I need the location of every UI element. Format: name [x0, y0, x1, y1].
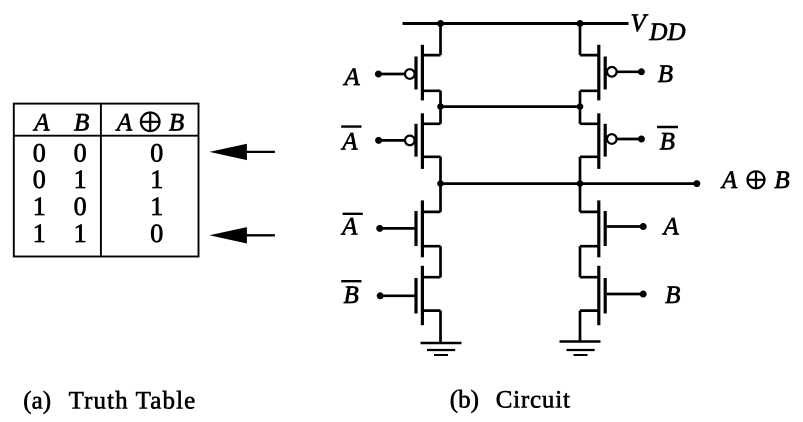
svg-text:1: 1 — [150, 165, 163, 194]
junction dot output left branch — [437, 180, 444, 187]
svg-text:1: 1 — [33, 192, 46, 221]
svg-text:0: 0 — [74, 192, 87, 221]
svg-text:B: B — [774, 167, 789, 194]
node N1: cross-coupling wire between branches — [441, 105, 581, 108]
bubble on Q6 gate — [607, 134, 617, 144]
ground symbol (right branch) — [560, 342, 601, 356]
svg-text:B: B — [74, 110, 89, 137]
table row 2: 0 1 -> 1 — [33, 165, 164, 194]
table header label A xor B — [115, 109, 184, 136]
terminal dot input B (Q8) — [640, 291, 647, 298]
bubble on Q5 gate — [607, 67, 617, 77]
svg-text:B: B — [343, 282, 358, 309]
wire input B to Q8 gate — [607, 293, 643, 296]
label input A — [342, 64, 360, 91]
arrow pointing to table row 1 — [209, 144, 275, 160]
wire Q1 drain to node N1 — [439, 91, 442, 107]
transistor Q2 (PMOS, gate A-bar, left) — [416, 113, 441, 169]
wire output node to Q3 drain — [439, 184, 442, 212]
svg-text:A: A — [32, 110, 50, 137]
label VDD — [631, 10, 686, 46]
label input A-bar (Q3) — [340, 214, 363, 241]
svg-text:A: A — [340, 214, 358, 241]
terminal dot input B-bar (Q6) — [638, 136, 645, 143]
svg-text:A: A — [342, 64, 360, 91]
svg-text:0: 0 — [33, 165, 46, 194]
wire node N1 to Q6 source — [579, 107, 582, 124]
svg-text:B: B — [169, 109, 184, 136]
wire Q2 drain to output node — [439, 157, 442, 184]
terminal dot input A (Q7) — [640, 223, 647, 230]
svg-text:A: A — [720, 167, 738, 194]
bubble on Q1 gate — [405, 69, 415, 79]
svg-text:Circuit: Circuit — [496, 386, 571, 413]
transistor Q6 (PMOS, gate B-bar, right) — [580, 113, 605, 169]
junction dot node N1 right — [577, 103, 584, 110]
svg-text:0: 0 — [150, 139, 163, 168]
table header label B — [74, 110, 89, 137]
svg-text:0: 0 — [74, 139, 87, 168]
wire input B to Q5 gate — [616, 70, 641, 73]
net VDD: power rail wire — [403, 22, 629, 25]
terminal dot output — [693, 180, 700, 187]
wire VDD to Q1 source — [439, 24, 442, 56]
bubble on Q2 gate — [405, 136, 415, 146]
transistor Q7 (NMOS, gate A, right) — [580, 200, 605, 257]
table row 1: 0 0 -> 0 — [33, 139, 164, 168]
wire Q6 drain to output node — [579, 157, 582, 184]
junction dot node N1 left — [437, 103, 444, 110]
label input B (Q5) — [658, 61, 673, 88]
svg-text:1: 1 — [33, 219, 46, 248]
wire output node to Q7 drain — [579, 184, 582, 212]
wire Q7 source to Q8 drain — [579, 246, 582, 277]
svg-text:V: V — [631, 10, 649, 37]
svg-text:A: A — [340, 129, 358, 156]
wire node N1 to Q2 source — [439, 107, 442, 124]
transistor Q1 (PMOS, gate A, left top) — [416, 45, 441, 101]
junction on VDD rail (left branch) — [437, 20, 444, 27]
label output A xor B — [720, 167, 790, 194]
label input B-bar (Q4) — [341, 281, 361, 309]
label input A-bar — [340, 127, 361, 156]
svg-text:B: B — [665, 282, 680, 309]
arrow pointing to table row 4 — [209, 227, 275, 243]
net OUT: output wire A xor B — [441, 182, 697, 185]
caption (a) Truth Table — [23, 388, 196, 415]
ground symbol (left branch) — [421, 343, 462, 355]
svg-text:A: A — [115, 109, 133, 136]
svg-text:B: B — [660, 128, 675, 155]
transistor Q3 (NMOS, gate A-bar, left) — [416, 200, 441, 257]
table row 4: 1 1 -> 0 — [33, 219, 164, 248]
wire Q3 source to Q4 drain — [439, 246, 442, 277]
svg-text:DD: DD — [648, 19, 685, 46]
wire VDD to Q5 source — [579, 24, 582, 56]
transistor Q4 (NMOS, gate B-bar, left) — [416, 266, 441, 325]
wire Q5 drain to node N1 — [579, 91, 582, 107]
terminal dot input B-bar (Q4) — [377, 292, 384, 299]
svg-text:0: 0 — [33, 139, 46, 168]
terminal dot input A-bar (Q3) — [376, 225, 383, 232]
truth table header divider — [14, 135, 199, 137]
svg-text:1: 1 — [150, 192, 163, 221]
transistor Q8 (NMOS, gate B, right) — [580, 266, 605, 325]
wire input A-bar to Q2 gate — [379, 139, 406, 142]
terminal dot input A-bar — [375, 137, 382, 144]
table header label A — [32, 110, 50, 137]
junction on VDD rail (right branch) — [577, 20, 584, 27]
svg-text:A: A — [661, 214, 679, 241]
truth table column divider — [100, 104, 102, 257]
transistor Q5 (PMOS, gate B, right top) — [580, 45, 605, 101]
wire Q8 source to ground — [579, 311, 582, 342]
wire input A to Q7 gate — [607, 225, 643, 228]
svg-text:1: 1 — [74, 165, 87, 194]
svg-text:(b): (b) — [450, 386, 479, 413]
svg-text:B: B — [658, 61, 673, 88]
wire Q4 source to ground — [439, 311, 442, 343]
label input A (Q7) — [661, 214, 679, 241]
label input B (Q8) — [665, 282, 680, 309]
junction dot output right branch — [577, 180, 584, 187]
wire input A-bar to Q3 gate — [380, 227, 415, 230]
truth table outer border — [14, 104, 199, 257]
wire input B-bar to Q4 gate — [380, 294, 414, 297]
svg-text:Truth Table: Truth Table — [69, 388, 197, 415]
svg-text:0: 0 — [150, 219, 163, 248]
label input B-bar (Q6) — [657, 127, 678, 155]
wire input B-bar to Q6 gate — [616, 138, 641, 141]
terminal dot input B (Q5) — [638, 68, 645, 75]
table row 3: 1 0 -> 1 — [33, 192, 164, 221]
svg-text:(a): (a) — [23, 388, 51, 415]
terminal dot input A — [375, 71, 382, 78]
wire input A to Q1 gate — [378, 73, 405, 76]
svg-text:1: 1 — [74, 219, 87, 248]
caption (b) Circuit — [450, 386, 571, 413]
